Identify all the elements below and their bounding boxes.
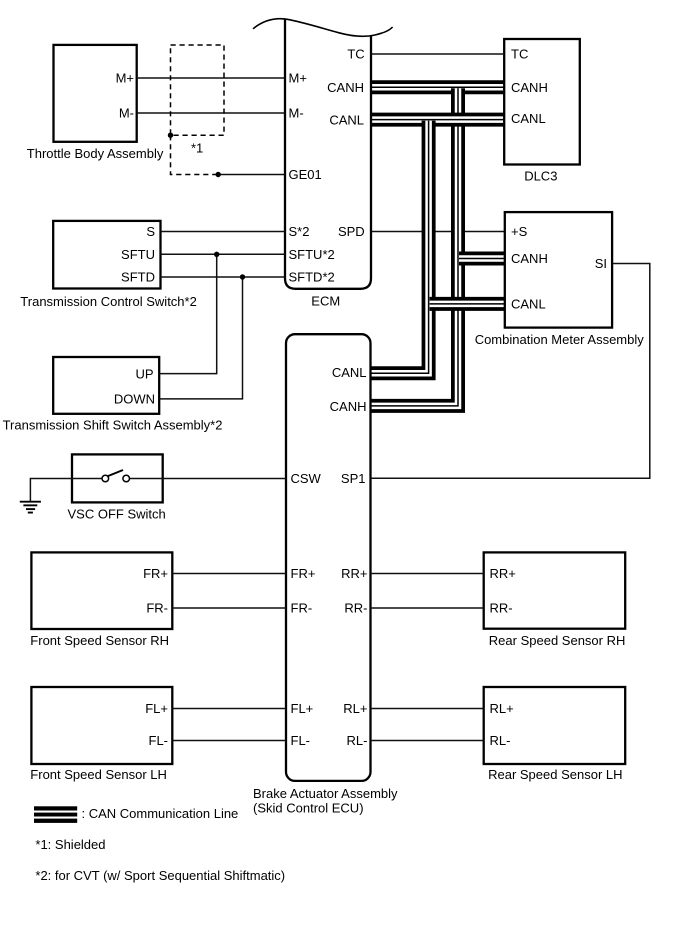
svg-text:RL+: RL+ [490,701,514,716]
wire S [161,231,286,233]
svg-text:M-: M- [119,106,134,121]
svg-text:FR-: FR- [291,601,313,616]
VSC OFF switch blade [108,470,124,476]
svg-text:DLC3: DLC3 [524,169,557,184]
svg-text:RL-: RL- [347,733,368,748]
svg-text:FR-: FR- [146,601,168,616]
wire FR+ [172,573,286,575]
svg-text:Rear Speed Sensor RH: Rear Speed Sensor RH [489,633,626,648]
dashed shield box *1 [171,45,225,135]
svg-text:TC: TC [511,47,528,62]
wire M+ throttle to ECM [137,77,285,79]
wire TC ECM to DLC3 [371,53,504,55]
CAN bus ECM CANL horizontal to DLC3 [371,113,504,127]
svg-text:RR+: RR+ [341,566,367,581]
box Front Speed Sensor RH [31,552,172,629]
svg-text:RR+: RR+ [490,566,516,581]
svg-text:FL+: FL+ [291,701,314,716]
svg-text:CANH: CANH [511,80,548,95]
svg-text:UP: UP [135,366,153,381]
wire UP to SFTU junction [159,254,217,373]
box Rear Speed Sensor LH [484,687,626,764]
ECM torn-edge wave [253,19,393,37]
svg-text:M-: M- [289,106,304,121]
wire CSW [130,478,287,480]
svg-text:(Skid Control ECU): (Skid Control ECU) [253,800,364,815]
svg-text:SP1: SP1 [341,471,366,486]
box Throttle Body Assembly [54,45,137,142]
CAN bus CANL vertical down to Skid Control ECU CANL pin [371,121,429,374]
box DLC3 [504,39,580,165]
svg-text:FL-: FL- [149,733,169,748]
ground symbol [20,502,41,513]
box Transmission Control Switch [53,221,160,289]
svg-text:Rear Speed Sensor LH: Rear Speed Sensor LH [488,767,622,782]
svg-text:SFTU*2: SFTU*2 [289,247,335,262]
box ECM (open wavy top) [285,19,371,289]
CAN bus branch to Combination Meter CANH [459,252,505,266]
wire M- throttle to ECM [137,112,285,114]
svg-text:Transmission Shift Switch Asse: Transmission Shift Switch Assembly*2 [3,417,223,432]
svg-text:RL+: RL+ [343,701,367,716]
box Brake Actuator Assembly (Skid Control ECU) [286,334,371,781]
wire FR- [172,607,286,609]
dashed shield drain wire [171,135,219,174]
svg-text:FR+: FR+ [143,566,168,581]
svg-text:*1: *1 [191,141,203,156]
svg-text:SPD: SPD [338,224,365,239]
wire SI to SP1 [371,264,650,479]
VSC OFF switch contact left [102,475,109,482]
svg-text:S*2: S*2 [289,224,310,239]
box Front Speed Sensor LH [31,687,172,764]
svg-text:M+: M+ [116,71,134,86]
CAN bus ECM CANH horizontal to DLC3 [371,80,504,94]
svg-text:SFTD: SFTD [121,270,155,285]
svg-text:GE01: GE01 [289,167,322,182]
wire SFTU [161,253,286,255]
svg-text:ECM: ECM [311,294,340,309]
svg-text:CANL: CANL [329,112,364,127]
svg-text:CANL: CANL [511,297,546,312]
wire FL+ [172,708,286,710]
wire GE01 [218,174,285,176]
svg-text:Combination Meter Assembly: Combination Meter Assembly [475,332,645,347]
svg-text:SI: SI [595,256,607,271]
svg-text:FL+: FL+ [145,701,168,716]
svg-text:RL-: RL- [490,733,511,748]
svg-text:SFTU: SFTU [121,247,155,262]
svg-text:TC: TC [347,47,364,62]
svg-text:S: S [146,224,155,239]
wire RL+ [371,708,484,710]
junction dot GE01 [216,172,221,177]
svg-text:CANH: CANH [327,80,364,95]
svg-text:SFTD*2: SFTD*2 [289,270,335,285]
junction dot SFTU [214,252,219,257]
svg-text:*2: for CVT (w/ Sport Sequenti: *2: for CVT (w/ Sport Sequential Shiftma… [35,868,285,883]
svg-text:M+: M+ [289,71,307,86]
svg-text:FR+: FR+ [291,566,316,581]
svg-text:RR-: RR- [344,601,367,616]
svg-text:Front Speed Sensor LH: Front Speed Sensor LH [30,767,167,782]
svg-text:DOWN: DOWN [114,392,155,407]
wire FL- [172,740,286,742]
svg-text:FL-: FL- [291,733,311,748]
svg-text:CANH: CANH [330,399,367,414]
svg-text:+S: +S [511,224,528,239]
box VSC OFF Switch [72,454,163,502]
svg-text:CANL: CANL [511,111,546,126]
wire RR+ [371,573,484,575]
svg-text:CSW: CSW [291,471,322,486]
wire DOWN to SFTD junction [159,277,242,399]
box Combination Meter Assembly [505,212,612,328]
box Transmission Shift Switch Assembly [53,357,159,414]
svg-text:Front Speed Sensor RH: Front Speed Sensor RH [30,633,169,648]
wire SFTD [161,276,286,278]
wire SPD to +S (under CAN bands) [371,231,505,233]
svg-text:*1: Shielded: *1: Shielded [35,837,105,852]
svg-text:Transmission Control Switch*2: Transmission Control Switch*2 [20,294,197,309]
svg-text:Brake Actuator Assembly: Brake Actuator Assembly [253,786,398,801]
svg-text:: CAN Communication Line: : CAN Communication Line [82,806,239,821]
VSC OFF switch contact right [123,475,130,482]
legend CAN communication line sample [34,806,77,823]
wire RL- [371,740,484,742]
svg-text:Throttle Body Assembly: Throttle Body Assembly [27,146,164,161]
CAN bus CANH vertical down to Skid Control ECU CANH pin [371,88,459,406]
junction dot SFTD [240,274,245,279]
svg-text:CANL: CANL [332,365,367,380]
svg-text:VSC OFF Switch: VSC OFF Switch [68,506,166,521]
wire RR- [371,607,484,609]
svg-text:CANH: CANH [511,251,548,266]
svg-text:RR-: RR- [490,601,513,616]
junction dot shield corner [168,133,173,138]
box Rear Speed Sensor RH [484,552,626,628]
wire VSC switch to ground [30,479,102,502]
CAN bus branch to Combination Meter CANL [430,297,505,311]
